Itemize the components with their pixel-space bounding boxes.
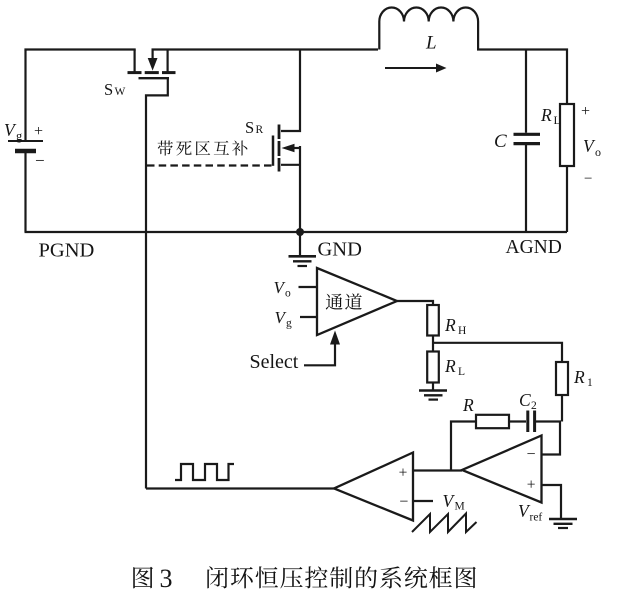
svg-text:R: R [540,105,552,125]
svg-text:Select: Select [250,351,299,373]
capacitor C2 [509,411,561,433]
wire inductor to output node [477,50,567,105]
transistor SR (sync rectifier) [273,125,300,233]
svg-text:W: W [115,86,126,98]
caption title text [207,566,475,588]
node GND junction dot [296,228,304,236]
resistor R1 [556,362,568,395]
resistor RH [427,305,439,336]
svg-text:2: 2 [531,400,537,412]
wire Vo input [299,286,318,288]
inductor L [379,7,478,49]
svg-text:ref: ref [530,512,543,524]
wire Select with arrow [304,342,335,366]
wire SR drain drop [281,50,300,132]
op-amp channel selector [317,268,397,335]
op-amp error amplifier [462,436,542,503]
svg-text:L: L [425,33,437,54]
svg-text:o: o [285,288,291,300]
capacitor C [514,50,541,233]
svg-text:+: + [34,123,43,140]
svg-text:R: R [256,124,264,136]
wire Vg input [300,316,317,318]
svg-text:H: H [458,325,466,337]
wire Sw gate step-down to PWM line [146,79,168,489]
wire feedback left leg [451,422,476,471]
svg-text:AGND: AGND [506,237,562,258]
svg-text:R: R [444,356,456,376]
wire EA output to comparator plus input [413,469,462,471]
wire top rail right (Sw source to inductor, with SR drain tap) [152,48,379,50]
resistor RL load [560,104,574,232]
square wave PWM symbol [175,464,234,480]
wire R1 to C2 junction [561,395,563,422]
label channel text [326,293,362,309]
wire bottom ground rail [25,231,568,233]
wire top rail left (battery to Sw drain) [26,50,136,52]
svg-text:R: R [444,315,456,335]
resistor RL divider [427,352,439,383]
battery Vg [8,51,43,233]
wire comparator minus stub [413,500,433,502]
wire comparator output to PWM line [146,487,334,489]
svg-text:R: R [462,395,474,415]
wire EA minus input to C2 junction [542,422,561,455]
wire dead-time dashed control link [147,164,272,166]
svg-text:L: L [554,113,561,127]
svg-text:L: L [458,366,465,378]
svg-text:−: − [35,151,45,170]
ground GND symbol [289,232,317,266]
svg-text:o: o [595,145,601,159]
svg-text:S: S [104,80,113,99]
svg-text:M: M [455,501,465,513]
svg-text:3: 3 [160,564,173,593]
svg-text:+: + [527,477,536,494]
svg-text:−: − [399,494,408,511]
svg-text:R: R [573,367,585,387]
caption figure number [133,567,153,589]
wire selector output [397,301,433,306]
sawtooth ramp symbol [412,514,477,533]
svg-text:−: − [527,446,536,463]
svg-text:GND: GND [318,239,362,261]
svg-text:C: C [519,390,531,410]
wire RH to RL [432,336,434,352]
wire EA plus input to Vref ground [542,485,562,519]
resistor R compensation [476,415,509,428]
svg-text:−: − [584,171,592,187]
svg-text:S: S [245,118,254,137]
ground Vref [549,519,577,528]
ground below RL [419,383,447,400]
svg-text:g: g [16,129,23,143]
op-amp PWM comparator [334,453,413,521]
svg-text:g: g [286,318,292,330]
svg-text:+: + [399,464,408,481]
wire divider tap to R1 [433,343,562,362]
svg-text:1: 1 [587,377,593,389]
label dead-zone complementary text [158,140,248,155]
svg-text:+: + [581,103,590,120]
transistor Sw (high-side switch) [128,50,176,79]
svg-text:PGND: PGND [39,240,95,262]
svg-text:C: C [494,131,507,152]
inductor current arrow [385,67,438,69]
